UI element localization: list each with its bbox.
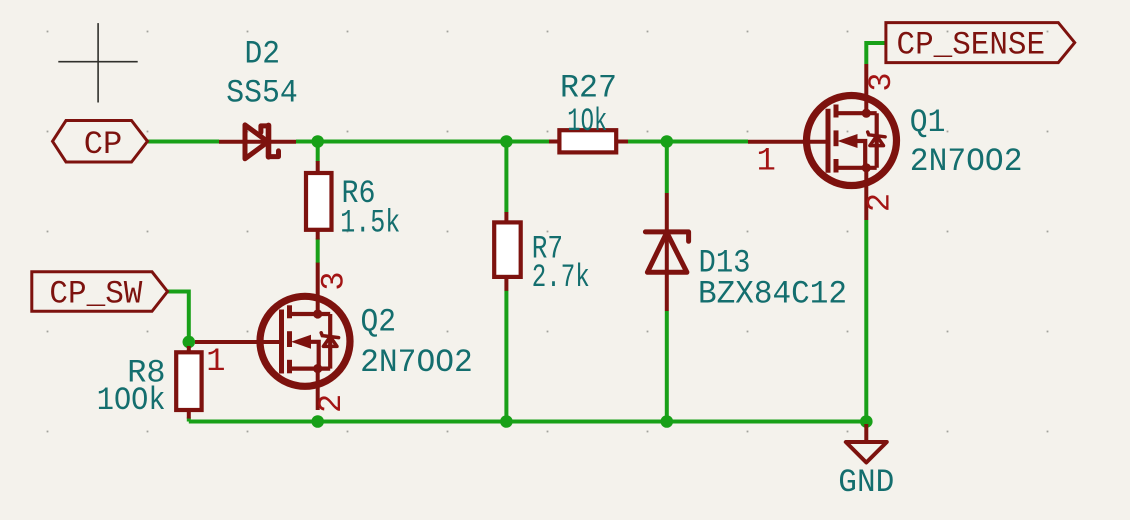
svg-text:3: 3	[863, 72, 900, 91]
wire D2 to R27	[296, 140, 550, 144]
Q1 gate wire	[748, 140, 829, 144]
svg-text:2.7k: 2.7k	[532, 259, 590, 296]
wire ground bus	[189, 420, 867, 424]
zener diode D13 BZX84C12	[645, 193, 688, 311]
resistor R6	[306, 161, 332, 240]
Q1 substrate arrow	[838, 134, 858, 148]
node junction R7-bus	[500, 415, 513, 428]
svg-text:R27: R27	[560, 70, 617, 107]
wire R6 top stub	[316, 143, 320, 162]
Q1 channel bars	[834, 105, 839, 118]
Q2 substrate arrow	[291, 335, 311, 349]
Q1 gate bar	[826, 109, 831, 173]
Q1 body circle	[807, 96, 897, 186]
Q2 source link	[290, 367, 331, 371]
Q2 gate wire	[195, 340, 282, 344]
svg-text:GND: GND	[838, 464, 894, 501]
svg-text:2N7OO2: 2N7OO2	[910, 143, 1023, 180]
wire CP to D2	[148, 140, 219, 144]
Q1 pin 3 lead	[864, 64, 868, 113]
label CP	[53, 121, 148, 163]
transistor Q2 2N7002	[195, 263, 350, 410]
svg-text:2: 2	[313, 394, 350, 413]
svg-text:1: 1	[206, 343, 225, 380]
sheet origin crosshair	[58, 23, 137, 102]
wire CP_SW to R8	[168, 292, 189, 349]
wire R27 to Q1 gate	[627, 140, 748, 144]
Q2 body circle	[260, 296, 350, 386]
Q1 body diode	[868, 132, 885, 146]
Q2 substrate link	[311, 342, 319, 369]
Q1 source link	[836, 166, 877, 170]
Q2 body diode	[321, 333, 338, 347]
Q1 drain dot	[862, 109, 871, 118]
Q2 gate bar	[279, 310, 284, 374]
svg-text:Q1: Q1	[910, 104, 946, 141]
Q2 channel bars	[287, 305, 292, 318]
label CP_SW	[32, 272, 168, 313]
Q2 body rail	[328, 314, 332, 369]
Q2 drain link	[290, 312, 331, 316]
wire junction to R7	[504, 142, 508, 213]
ground	[846, 424, 887, 463]
node junction Q2 source-bus	[311, 415, 324, 428]
svg-text:D2: D2	[245, 36, 281, 73]
svg-text:1OOk: 1OOk	[97, 382, 166, 419]
wire CP_SENSE to Q1 drain	[866, 43, 886, 64]
Q1 substrate link	[858, 141, 866, 168]
node junction R27-D13	[661, 135, 674, 148]
svg-text:CP_SW: CP_SW	[49, 276, 143, 313]
node junction GND-bus	[860, 415, 873, 428]
Q2 pin 2 lead	[316, 369, 320, 410]
wire R8 bottom elbow	[187, 418, 191, 422]
wire R6 bottom to Q2 drain	[316, 239, 320, 264]
label CP_SENSE	[886, 23, 1075, 64]
svg-text:CP_SENSE: CP_SENSE	[897, 27, 1046, 64]
Q1 body rail	[875, 113, 879, 168]
Q1 drain link	[836, 111, 877, 115]
wire junction to D13	[665, 142, 669, 194]
node junction CP_SW-R8	[183, 336, 196, 349]
Q2 source dot	[313, 364, 322, 373]
svg-text:1: 1	[757, 142, 776, 179]
svg-text:Q2: Q2	[361, 304, 397, 341]
svg-text:SS54: SS54	[226, 75, 298, 112]
resistor R27	[549, 130, 628, 152]
svg-text:BZX84C12: BZX84C12	[698, 276, 847, 313]
node junction D13-bus	[661, 415, 674, 428]
resistor R7	[494, 212, 521, 291]
wire Q1 source to bus	[864, 220, 868, 422]
Q2 pin 3 lead	[316, 263, 320, 315]
svg-text:2N7OO2: 2N7OO2	[360, 344, 473, 381]
transistor Q1 2N7002	[748, 64, 897, 220]
svg-text:2: 2	[862, 193, 899, 212]
node junction D2-R6	[311, 135, 324, 148]
Q1 pin 2 lead	[864, 168, 868, 220]
node junction R27-R7	[500, 135, 513, 148]
svg-text:3: 3	[316, 271, 353, 290]
svg-text:CP: CP	[84, 126, 123, 163]
wire D13 bottom to bus	[665, 311, 669, 422]
Q2 drain dot	[313, 309, 322, 318]
svg-text:1Ok: 1Ok	[567, 103, 607, 140]
diode D2 SS54	[219, 125, 296, 159]
svg-text:1.5k: 1.5k	[340, 205, 400, 242]
resistor R8	[176, 346, 201, 419]
wire R7 bottom to bus	[504, 290, 508, 421]
Q1 source dot	[862, 163, 871, 172]
